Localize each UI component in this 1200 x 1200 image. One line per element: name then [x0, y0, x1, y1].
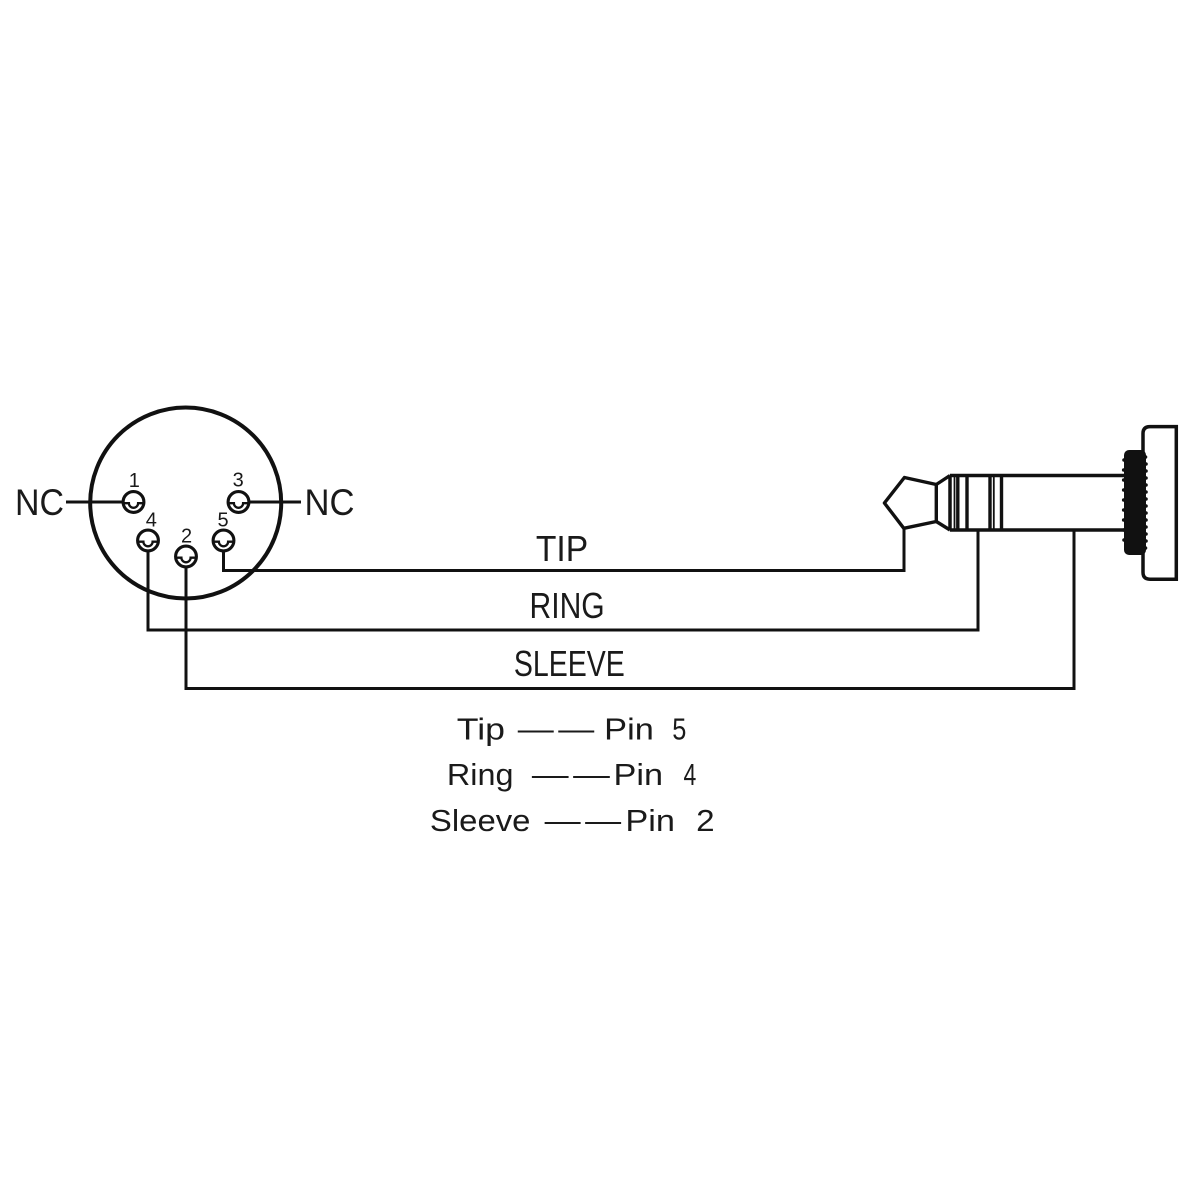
- svg-text:NC: NC: [15, 482, 64, 523]
- svg-text:3: 3: [233, 470, 244, 492]
- pin 4: [137, 530, 159, 551]
- svg-text:Tip——Pin5: Tip——Pin5: [457, 712, 687, 747]
- wire pin 3 to NC-right: [250, 501, 302, 504]
- DIN connector shell (5-pin DIN female face): [90, 408, 281, 599]
- svg-text:5: 5: [217, 510, 228, 532]
- jack tip (pentagon): [884, 478, 936, 529]
- pin 3: [228, 492, 250, 513]
- svg-text:RING: RING: [530, 585, 605, 626]
- svg-text:NC: NC: [305, 482, 355, 523]
- wire RING: pin 4 to jack ring band: [148, 531, 978, 630]
- svg-text:1: 1: [129, 470, 140, 492]
- svg-text:4: 4: [146, 510, 157, 532]
- svg-text:2: 2: [181, 526, 192, 548]
- jack neck chamfer top: [936, 476, 950, 485]
- jack knurled nut (black): [1122, 450, 1148, 555]
- wire SLEEVE: pin 2 to jack sleeve: [186, 531, 1074, 689]
- jack insulator groove lines: [955, 476, 1002, 531]
- pin 1: [123, 492, 145, 513]
- svg-text:Sleeve——Pin2: Sleeve——Pin2: [430, 803, 715, 838]
- jack plug body cap: [1143, 427, 1176, 580]
- jack shaft (sleeve barrel): [950, 476, 1124, 531]
- pin 5: [213, 530, 235, 551]
- wire NC-left to pin 1: [66, 501, 123, 504]
- jack neck chamfer bottom: [936, 522, 950, 531]
- svg-text:TIP: TIP: [536, 528, 588, 569]
- wire TIP: pin 5 to jack tip: [224, 529, 905, 571]
- pin 2: [175, 546, 197, 567]
- svg-text:SLEEVE: SLEEVE: [514, 643, 625, 684]
